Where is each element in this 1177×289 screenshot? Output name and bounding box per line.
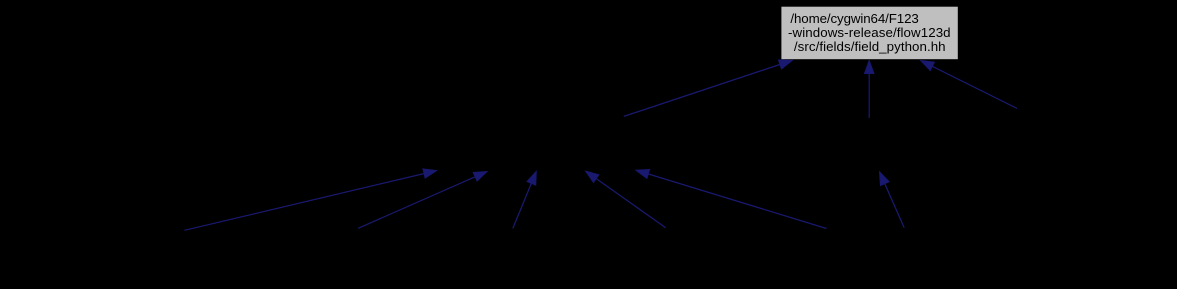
edge E7 (bottom node 4 -> mid node) (585, 171, 666, 228)
svg-text:/src/fields/field_python.hh: /src/fields/field_python.hh (794, 39, 946, 54)
edge E6 (bottom node 3 -> mid node) (513, 171, 537, 229)
edge E4 (bottom node 1 -> mid node) (185, 169, 438, 231)
edge E8 (bottom node 5 -> mid node) (635, 169, 826, 228)
edge E5 (bottom node 2 -> mid node) (358, 171, 487, 228)
edge E3 (mid-right node -> field_python.hh) (920, 60, 1017, 108)
node: field_python.hh (highlighted grey box) (781, 7, 957, 60)
edge E9 (bottom node 6 -> mid-center node) (879, 171, 904, 228)
edge E2 (mid-center node -> field_python.hh) (864, 60, 874, 118)
edge E1 (mid-left node -> field_python.hh) (624, 60, 793, 117)
svg-text:/home/cygwin64/F123: /home/cygwin64/F123 (790, 11, 918, 26)
